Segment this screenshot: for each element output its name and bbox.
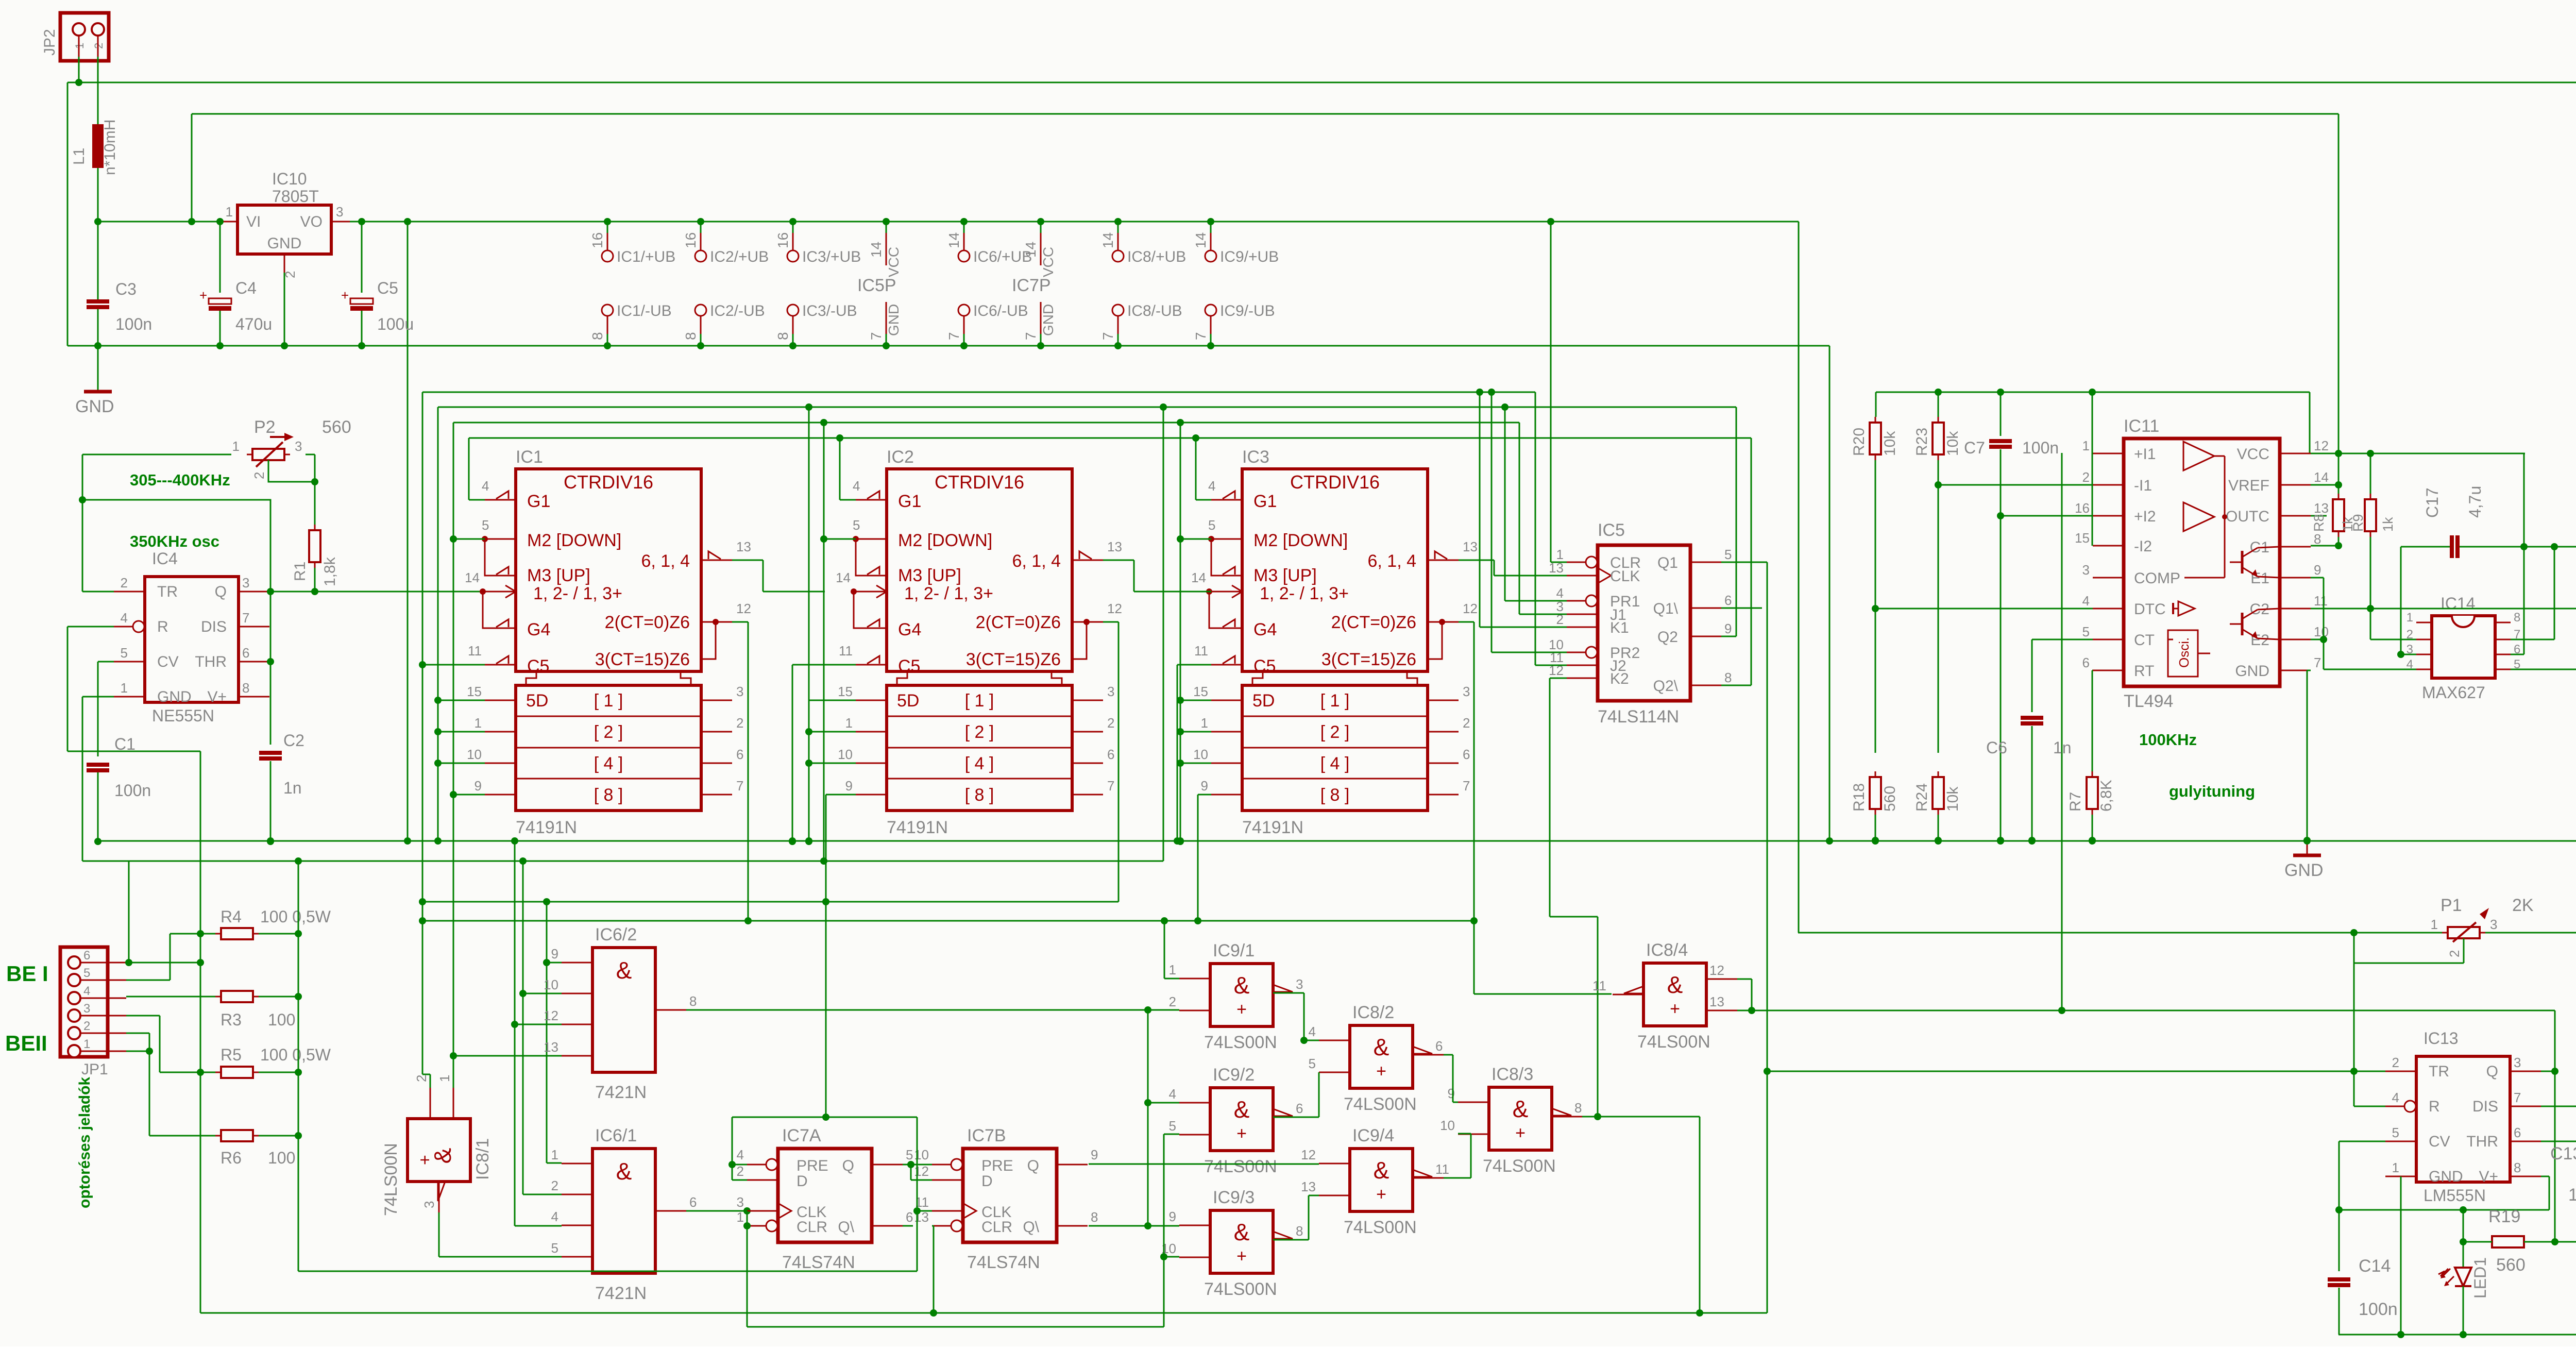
- svg-text:6: 6: [1724, 593, 1732, 608]
- svg-text:100n: 100n: [2359, 1300, 2398, 1319]
- svg-text:+: +: [1236, 1246, 1247, 1266]
- svg-text:G4: G4: [898, 620, 921, 639]
- svg-text:M2 [DOWN]: M2 [DOWN]: [898, 531, 992, 550]
- svg-text:IC9/+UB: IC9/+UB: [1220, 248, 1279, 265]
- svg-text:1: 1: [551, 1147, 558, 1162]
- svg-text:8: 8: [775, 332, 791, 340]
- svg-text:gulyituning: gulyituning: [2169, 782, 2255, 800]
- svg-text:7421N: 7421N: [595, 1083, 647, 1102]
- svg-text:BEII: BEII: [5, 1031, 47, 1055]
- svg-text:13: 13: [2314, 500, 2329, 516]
- svg-text:13: 13: [1463, 539, 1478, 554]
- svg-text:1, 2- / 1, 3+: 1, 2- / 1, 3+: [1260, 584, 1349, 603]
- svg-text:IC10: IC10: [272, 170, 307, 188]
- svg-text:R7: R7: [2067, 792, 2084, 812]
- svg-text:10: 10: [1440, 1118, 1455, 1133]
- svg-text:7: 7: [1193, 332, 1209, 340]
- svg-text:15: 15: [2075, 530, 2090, 546]
- svg-text:7: 7: [1023, 332, 1039, 340]
- svg-text:IC2: IC2: [887, 447, 914, 467]
- svg-text:[ 8 ]: [ 8 ]: [594, 785, 623, 805]
- svg-text:6: 6: [736, 747, 743, 762]
- svg-text:13: 13: [544, 1039, 558, 1055]
- svg-text:GND: GND: [886, 304, 902, 336]
- svg-text:5: 5: [1724, 547, 1732, 562]
- svg-text:3(CT=15)Z6: 3(CT=15)Z6: [1321, 650, 1416, 669]
- svg-text:10: 10: [914, 1147, 929, 1162]
- svg-text:74191N: 74191N: [1242, 818, 1303, 837]
- svg-text:3: 3: [1107, 684, 1114, 699]
- svg-text:12: 12: [914, 1163, 929, 1179]
- svg-text:74LS74N: 74LS74N: [967, 1253, 1040, 1272]
- svg-text:&: &: [1234, 972, 1250, 999]
- svg-text:DIS: DIS: [201, 618, 227, 635]
- svg-text:M3 [UP]: M3 [UP]: [1253, 566, 1317, 585]
- svg-text:1: 1: [1169, 962, 1176, 977]
- svg-text:13: 13: [736, 539, 751, 554]
- svg-text:GND: GND: [157, 688, 192, 705]
- svg-text:8: 8: [2514, 1160, 2521, 1175]
- svg-text:C5: C5: [527, 656, 549, 676]
- svg-text:NE555N: NE555N: [152, 706, 214, 725]
- svg-text:9: 9: [1169, 1209, 1176, 1224]
- svg-text:[ 2 ]: [ 2 ]: [1320, 722, 1350, 742]
- svg-text:1: 1: [474, 715, 482, 731]
- svg-text:1,8k: 1,8k: [321, 557, 338, 586]
- svg-text:TL494: TL494: [2124, 692, 2173, 711]
- svg-text:5D: 5D: [526, 691, 548, 711]
- svg-text:PRE: PRE: [981, 1157, 1013, 1174]
- svg-text:3: 3: [736, 684, 743, 699]
- svg-text:3: 3: [2490, 917, 2497, 932]
- svg-text:2: 2: [414, 1075, 429, 1082]
- svg-text:10k: 10k: [1944, 431, 1961, 456]
- svg-text:RT: RT: [2134, 663, 2154, 680]
- svg-text:[ 8 ]: [ 8 ]: [965, 785, 994, 805]
- svg-text:D: D: [796, 1173, 808, 1190]
- svg-text:n*10mH: n*10mH: [101, 120, 118, 175]
- svg-text:CV: CV: [157, 653, 179, 670]
- svg-text:BE I: BE I: [6, 962, 48, 986]
- svg-text:10: 10: [838, 747, 853, 762]
- svg-text:Osci.: Osci.: [2176, 637, 2192, 668]
- svg-text:11: 11: [1435, 1161, 1449, 1177]
- svg-text:2: 2: [736, 715, 743, 731]
- svg-text:[ 8 ]: [ 8 ]: [1320, 785, 1350, 805]
- svg-text:4: 4: [121, 610, 128, 626]
- svg-text:C13: C13: [2550, 1144, 2576, 1163]
- svg-text:74LS00N: 74LS00N: [1344, 1094, 1417, 1114]
- svg-text:&: &: [1513, 1095, 1529, 1122]
- svg-text:8: 8: [589, 332, 605, 340]
- svg-text:5D: 5D: [1252, 691, 1275, 711]
- svg-text:100n: 100n: [115, 315, 152, 333]
- svg-text:V+: V+: [207, 688, 227, 705]
- svg-text:4: 4: [1169, 1086, 1176, 1102]
- svg-text:7: 7: [1100, 332, 1116, 340]
- svg-text:-I2: -I2: [2134, 538, 2152, 555]
- svg-text:IC6/1: IC6/1: [595, 1126, 637, 1145]
- svg-text:TR: TR: [157, 583, 178, 600]
- svg-text:C4: C4: [235, 279, 257, 297]
- svg-text:7805T: 7805T: [272, 187, 319, 206]
- svg-text:74LS00N: 74LS00N: [1483, 1156, 1556, 1176]
- svg-text:8: 8: [1091, 1209, 1098, 1225]
- svg-text:10: 10: [1193, 747, 1208, 762]
- svg-text:8: 8: [2514, 611, 2520, 625]
- svg-text:12: 12: [736, 601, 751, 616]
- svg-text:IC14: IC14: [2441, 594, 2476, 613]
- svg-text:560: 560: [2496, 1255, 2526, 1275]
- svg-text:C3: C3: [115, 280, 137, 298]
- svg-text:[ 4 ]: [ 4 ]: [1320, 754, 1350, 773]
- svg-text:7: 7: [242, 610, 249, 626]
- svg-text:IC3/+UB: IC3/+UB: [802, 248, 861, 265]
- svg-text:Q: Q: [215, 583, 227, 600]
- svg-text:1k: 1k: [2380, 517, 2396, 532]
- svg-text:6: 6: [1296, 1101, 1303, 1116]
- svg-text:CV: CV: [2429, 1133, 2450, 1150]
- svg-text:1: 1: [2392, 1160, 2399, 1175]
- svg-text:6: 6: [2082, 655, 2090, 670]
- svg-text:1: 1: [2406, 611, 2413, 625]
- svg-text:IC6/2: IC6/2: [595, 925, 637, 945]
- svg-text:6: 6: [242, 645, 249, 661]
- svg-text:100 0,5W: 100 0,5W: [260, 907, 331, 926]
- svg-text:+: +: [1376, 1185, 1386, 1204]
- svg-text:R20: R20: [1851, 428, 1868, 456]
- svg-text:2: 2: [737, 1163, 744, 1179]
- svg-text:3: 3: [83, 1002, 90, 1016]
- svg-text:CLR: CLR: [796, 1219, 827, 1236]
- svg-text:3: 3: [242, 575, 249, 591]
- svg-text:Q\: Q\: [1023, 1219, 1039, 1236]
- svg-text:470u: 470u: [235, 315, 272, 333]
- svg-text:3(CT=15)Z6: 3(CT=15)Z6: [595, 650, 690, 669]
- svg-text:R: R: [2429, 1098, 2440, 1115]
- svg-text:8: 8: [2314, 531, 2321, 547]
- svg-text:IC9/3: IC9/3: [1213, 1188, 1255, 1207]
- svg-text:P1: P1: [2441, 896, 2462, 915]
- svg-text:Q1\: Q1\: [1653, 600, 1679, 617]
- svg-text:2: 2: [2392, 1055, 2399, 1070]
- svg-text:LM555N: LM555N: [2424, 1186, 2486, 1205]
- svg-text:100 0,5W: 100 0,5W: [260, 1046, 331, 1064]
- svg-text:IC8/3: IC8/3: [1492, 1065, 1533, 1084]
- svg-text:[ 4 ]: [ 4 ]: [965, 754, 994, 773]
- svg-text:[ 4 ]: [ 4 ]: [594, 754, 623, 773]
- svg-text:7421N: 7421N: [595, 1284, 647, 1303]
- svg-text:[ 1 ]: [ 1 ]: [1320, 691, 1350, 711]
- svg-text:IC6/-UB: IC6/-UB: [973, 302, 1028, 319]
- svg-text:11: 11: [839, 643, 853, 659]
- svg-text:560: 560: [1882, 786, 1899, 812]
- svg-text:15: 15: [467, 684, 482, 699]
- svg-text:R9: R9: [2350, 514, 2366, 532]
- svg-text:7: 7: [1107, 778, 1114, 794]
- svg-text:4: 4: [2392, 1090, 2399, 1105]
- svg-text:GND: GND: [267, 235, 302, 252]
- svg-text:9: 9: [1448, 1086, 1455, 1101]
- svg-text:C1: C1: [114, 735, 135, 753]
- svg-text:2: 2: [1169, 994, 1176, 1009]
- svg-text:C6: C6: [1986, 738, 2007, 757]
- svg-text:Q\: Q\: [838, 1219, 854, 1236]
- svg-text:DIS: DIS: [2472, 1098, 2498, 1115]
- svg-text:6: 6: [2514, 1125, 2521, 1140]
- svg-text:14: 14: [1191, 570, 1206, 585]
- svg-text:4: 4: [482, 478, 489, 494]
- svg-text:2K: 2K: [2512, 896, 2534, 915]
- svg-text:74191N: 74191N: [516, 818, 577, 837]
- svg-text:Q2\: Q2\: [1653, 678, 1679, 695]
- svg-text:M3 [UP]: M3 [UP]: [898, 566, 961, 585]
- svg-text:C17: C17: [2423, 487, 2442, 518]
- svg-text:16: 16: [683, 232, 699, 248]
- svg-text:IC2/+UB: IC2/+UB: [710, 248, 769, 265]
- svg-text:2(CT=0)Z6: 2(CT=0)Z6: [976, 613, 1061, 632]
- svg-text:2: 2: [251, 472, 267, 479]
- svg-text:14: 14: [2314, 469, 2329, 485]
- svg-text:14: 14: [1193, 232, 1209, 248]
- svg-text:1: 1: [845, 715, 853, 731]
- svg-text:2: 2: [83, 1019, 90, 1033]
- svg-text:R23: R23: [1913, 428, 1930, 456]
- svg-text:3: 3: [1296, 976, 1303, 992]
- svg-text:CTRDIV16: CTRDIV16: [935, 471, 1024, 493]
- svg-text:13: 13: [1709, 994, 1724, 1009]
- svg-text:JP1: JP1: [81, 1061, 108, 1078]
- svg-text:100: 100: [268, 1010, 295, 1029]
- svg-text:1u: 1u: [2568, 1185, 2576, 1205]
- svg-text:IC4: IC4: [152, 549, 178, 568]
- svg-text:+: +: [1236, 1000, 1247, 1019]
- svg-text:11: 11: [1592, 978, 1606, 993]
- svg-text:COMP: COMP: [2134, 570, 2180, 587]
- svg-text:G1: G1: [527, 492, 550, 511]
- svg-text:R24: R24: [1913, 783, 1930, 812]
- svg-text:C5: C5: [898, 656, 920, 676]
- svg-text:Q1: Q1: [1657, 554, 1678, 571]
- svg-text:IC5P: IC5P: [857, 276, 896, 295]
- svg-text:350KHz osc: 350KHz osc: [130, 532, 219, 550]
- svg-text:3: 3: [1463, 684, 1470, 699]
- svg-text:C2: C2: [283, 731, 304, 750]
- svg-text:9: 9: [551, 946, 558, 962]
- svg-text:&: &: [1234, 1219, 1250, 1245]
- svg-text:4,7u: 4,7u: [2466, 486, 2484, 518]
- svg-text:PRE: PRE: [796, 1157, 828, 1174]
- svg-text:IC9/-UB: IC9/-UB: [1220, 302, 1275, 319]
- svg-text:4: 4: [83, 984, 90, 998]
- svg-text:THR: THR: [2466, 1133, 2498, 1150]
- svg-text:305---400KHz: 305---400KHz: [130, 471, 230, 489]
- svg-text:IC8/-UB: IC8/-UB: [1127, 302, 1182, 319]
- svg-text:Q: Q: [842, 1157, 854, 1174]
- svg-text:4: 4: [737, 1147, 744, 1162]
- svg-text:IC3: IC3: [1242, 447, 1269, 467]
- svg-text:-I1: -I1: [2134, 477, 2152, 494]
- svg-text:G4: G4: [1253, 620, 1277, 639]
- svg-text:3: 3: [2082, 562, 2090, 578]
- svg-text:2: 2: [121, 575, 128, 591]
- svg-text:CTRDIV16: CTRDIV16: [564, 471, 653, 493]
- svg-text:7: 7: [946, 332, 962, 340]
- svg-text:R6: R6: [221, 1149, 242, 1167]
- svg-text:[ 1 ]: [ 1 ]: [965, 691, 994, 711]
- svg-text:C5: C5: [377, 279, 398, 297]
- svg-text:8: 8: [1724, 670, 1732, 685]
- svg-text:C7: C7: [1964, 439, 1985, 457]
- svg-text:11: 11: [1194, 643, 1208, 659]
- svg-text:G1: G1: [1253, 492, 1277, 511]
- svg-text:1: 1: [437, 1075, 452, 1082]
- svg-text:VCC: VCC: [1040, 247, 1056, 277]
- svg-text:6: 6: [1435, 1038, 1443, 1054]
- svg-text:100n: 100n: [114, 781, 151, 800]
- svg-text:6: 6: [906, 1209, 913, 1225]
- svg-text:3(CT=15)Z6: 3(CT=15)Z6: [966, 650, 1061, 669]
- svg-text:10: 10: [467, 747, 482, 762]
- svg-text:2(CT=0)Z6: 2(CT=0)Z6: [605, 613, 690, 632]
- svg-text:D: D: [981, 1173, 993, 1190]
- svg-text:7: 7: [1463, 778, 1470, 794]
- svg-text:2: 2: [551, 1178, 558, 1193]
- svg-text:IC2/-UB: IC2/-UB: [710, 302, 765, 319]
- svg-text:6: 6: [1107, 747, 1114, 762]
- svg-text:1: 1: [2431, 917, 2438, 932]
- svg-text:14: 14: [1023, 242, 1039, 258]
- svg-text:12: 12: [1301, 1147, 1316, 1162]
- svg-text:5: 5: [1169, 1118, 1176, 1134]
- svg-text:4: 4: [1309, 1024, 1316, 1039]
- svg-text:+: +: [1376, 1061, 1386, 1081]
- svg-text:7: 7: [2514, 1090, 2521, 1105]
- svg-text:IC8/+UB: IC8/+UB: [1127, 248, 1186, 265]
- svg-text:[ 1 ]: [ 1 ]: [594, 691, 623, 711]
- svg-text:8: 8: [1574, 1100, 1582, 1116]
- svg-text:1: 1: [121, 680, 128, 696]
- svg-text:8: 8: [689, 993, 697, 1009]
- svg-text:IC1/-UB: IC1/-UB: [617, 302, 672, 319]
- svg-text:14: 14: [946, 232, 962, 248]
- svg-text:74LS74N: 74LS74N: [782, 1253, 855, 1272]
- svg-text:11: 11: [468, 643, 482, 659]
- svg-text:IC9/4: IC9/4: [1352, 1126, 1394, 1145]
- svg-text:7: 7: [868, 332, 884, 340]
- svg-text:IC8/2: IC8/2: [1352, 1003, 1394, 1022]
- svg-text:74LS00N: 74LS00N: [1637, 1032, 1710, 1052]
- svg-text:6: 6: [83, 949, 90, 963]
- svg-text:GND: GND: [2429, 1168, 2463, 1185]
- svg-text:&: &: [1667, 971, 1683, 998]
- svg-text:5: 5: [83, 966, 90, 980]
- svg-text:4: 4: [2082, 593, 2090, 609]
- svg-text:9: 9: [1201, 778, 1208, 794]
- svg-text:16: 16: [775, 232, 791, 248]
- svg-text:3: 3: [336, 204, 343, 220]
- svg-text:13: 13: [1301, 1179, 1316, 1194]
- svg-text:R8: R8: [2311, 514, 2327, 532]
- svg-text:9: 9: [474, 778, 482, 794]
- svg-text:14: 14: [868, 242, 884, 258]
- svg-text:+: +: [1515, 1123, 1526, 1143]
- svg-text:VCC: VCC: [2237, 446, 2269, 463]
- svg-text:Q2: Q2: [1657, 629, 1678, 646]
- svg-text:5: 5: [906, 1147, 913, 1162]
- svg-text:MAX627: MAX627: [2422, 683, 2485, 702]
- svg-text:12: 12: [2314, 438, 2329, 453]
- svg-text:CTRDIV16: CTRDIV16: [1290, 471, 1380, 493]
- svg-text:74LS00N: 74LS00N: [1204, 1157, 1277, 1176]
- svg-text:R3: R3: [221, 1010, 242, 1029]
- svg-text:optoréses jeladók: optoréses jeladók: [76, 1077, 93, 1208]
- svg-text:9: 9: [845, 778, 853, 794]
- svg-text:IC3/-UB: IC3/-UB: [802, 302, 857, 319]
- svg-text:+I1: +I1: [2134, 446, 2156, 463]
- svg-text:R19: R19: [2488, 1207, 2520, 1226]
- svg-text:3: 3: [737, 1194, 744, 1210]
- svg-text:5: 5: [2082, 624, 2090, 639]
- svg-text:GND: GND: [2284, 861, 2324, 880]
- svg-text:R: R: [157, 618, 168, 635]
- svg-text:IC1: IC1: [516, 447, 543, 467]
- svg-text:2: 2: [2447, 950, 2462, 957]
- svg-text:14: 14: [836, 570, 851, 585]
- svg-text:1: 1: [226, 204, 233, 220]
- svg-text:100n: 100n: [2022, 439, 2059, 457]
- svg-text:5: 5: [1309, 1056, 1316, 1071]
- svg-text:5: 5: [482, 517, 489, 533]
- svg-text:10k: 10k: [1882, 431, 1899, 456]
- svg-text:1, 2- / 1, 3+: 1, 2- / 1, 3+: [904, 584, 993, 603]
- svg-text:6,8K: 6,8K: [2098, 780, 2115, 812]
- svg-text:M2 [DOWN]: M2 [DOWN]: [527, 531, 621, 550]
- svg-text:LED1: LED1: [2471, 1257, 2489, 1299]
- svg-text:5: 5: [121, 645, 128, 661]
- svg-text:13: 13: [1107, 539, 1122, 554]
- svg-text:2: 2: [1107, 715, 1114, 731]
- svg-text:IC1/+UB: IC1/+UB: [617, 248, 675, 265]
- svg-text:1, 2- / 1, 3+: 1, 2- / 1, 3+: [533, 584, 622, 603]
- svg-text:5: 5: [853, 517, 860, 533]
- svg-text:3: 3: [2514, 1055, 2521, 1070]
- svg-text:Q: Q: [2486, 1063, 2498, 1080]
- svg-text:VCC: VCC: [886, 247, 902, 277]
- svg-text:9: 9: [1091, 1147, 1098, 1162]
- svg-text:M3 [UP]: M3 [UP]: [527, 566, 590, 585]
- svg-text:C14: C14: [2359, 1256, 2391, 1276]
- svg-text:OUTC: OUTC: [2226, 508, 2269, 525]
- svg-text:8: 8: [242, 680, 249, 696]
- svg-text:1: 1: [83, 1037, 90, 1051]
- svg-text:+I2: +I2: [2134, 508, 2156, 525]
- svg-text:3: 3: [295, 439, 302, 454]
- svg-text:8: 8: [1296, 1223, 1303, 1239]
- svg-text:1: 1: [232, 439, 240, 454]
- svg-text:+: +: [1670, 999, 1680, 1019]
- svg-text:1n: 1n: [283, 779, 302, 797]
- svg-text:12: 12: [1709, 963, 1724, 978]
- svg-text:14: 14: [465, 570, 480, 585]
- svg-text:9: 9: [1724, 621, 1732, 636]
- svg-text:14: 14: [1100, 232, 1116, 248]
- svg-text:1: 1: [1201, 715, 1208, 731]
- svg-text:1: 1: [2082, 438, 2090, 453]
- svg-text:Q: Q: [1027, 1157, 1039, 1174]
- svg-text:74LS00N: 74LS00N: [1344, 1218, 1417, 1237]
- svg-text:5D: 5D: [897, 691, 919, 711]
